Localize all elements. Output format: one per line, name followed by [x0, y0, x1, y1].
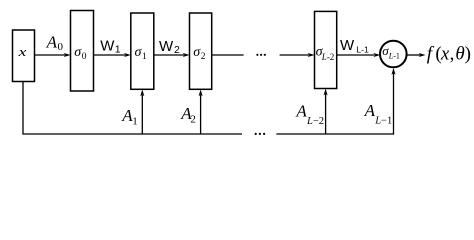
svg-text:1: 1 [142, 52, 147, 62]
svg-text:0: 0 [58, 41, 64, 53]
svg-text:x: x [440, 44, 450, 65]
svg-text:θ: θ [455, 44, 464, 65]
svg-text:x: x [17, 44, 26, 59]
svg-text:2: 2 [174, 44, 180, 56]
svg-text:1: 1 [115, 44, 121, 56]
svg-text:L−2: L−2 [306, 116, 324, 127]
svg-text:A: A [295, 102, 307, 121]
svg-text:,: , [450, 44, 455, 65]
svg-text:L-1: L-1 [388, 51, 400, 60]
svg-text:W: W [159, 38, 174, 55]
svg-text:L−1: L−1 [374, 116, 392, 127]
svg-text:2: 2 [201, 52, 206, 62]
svg-text:1: 1 [132, 115, 138, 127]
svg-text:): ) [465, 44, 471, 65]
svg-text:W: W [100, 37, 115, 54]
svg-text:A: A [46, 32, 58, 51]
svg-text:A: A [364, 101, 376, 120]
svg-text:W: W [340, 37, 355, 54]
svg-text:2: 2 [190, 114, 196, 126]
svg-text:0: 0 [82, 52, 87, 62]
svg-text:L-2: L-2 [321, 52, 335, 62]
svg-text:L-1: L-1 [356, 44, 369, 54]
